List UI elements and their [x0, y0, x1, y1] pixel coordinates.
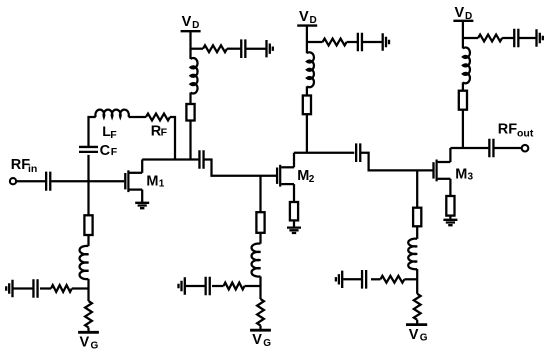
svg-text:V: V	[409, 327, 419, 343]
svg-text:M: M	[297, 168, 309, 184]
svg-text:3: 3	[468, 172, 474, 183]
svg-text:RF: RF	[498, 122, 517, 138]
svg-text:V: V	[299, 9, 309, 25]
svg-text:G: G	[263, 338, 271, 349]
svg-text:F: F	[110, 129, 117, 141]
svg-text:out: out	[517, 128, 534, 140]
svg-text:D: D	[310, 15, 317, 26]
svg-text:G: G	[91, 340, 99, 351]
svg-text:V: V	[80, 335, 90, 351]
svg-text:1: 1	[159, 178, 165, 189]
svg-text:V: V	[455, 5, 465, 21]
svg-text:F: F	[161, 127, 168, 139]
svg-text:V: V	[252, 332, 262, 348]
svg-text:C: C	[100, 143, 111, 159]
svg-text:M: M	[455, 166, 467, 182]
svg-text:in: in	[28, 163, 37, 175]
svg-text:D: D	[465, 11, 472, 22]
svg-text:F: F	[111, 146, 118, 158]
svg-text:D: D	[192, 20, 199, 31]
svg-text:2: 2	[309, 174, 315, 185]
svg-text:G: G	[420, 333, 428, 344]
svg-text:M: M	[146, 173, 158, 189]
svg-text:V: V	[182, 14, 192, 30]
